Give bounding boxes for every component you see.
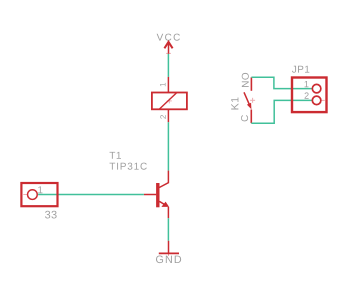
contact arm (244, 92, 250, 105)
pad origin cross (23, 194, 27, 196)
value TIP31C (110, 163, 147, 170)
label GND (156, 255, 181, 263)
coil body (152, 93, 187, 110)
pad circle (28, 190, 38, 200)
VCC arrow stem (168, 43, 170, 54)
coil pin 1 (167, 77, 169, 93)
wire base to pad 33 (38, 194, 144, 196)
wire pad 33 (21, 183, 57, 219)
base lead (144, 194, 156, 196)
label K1 (231, 97, 238, 109)
wire emitter to ground (167, 218, 169, 241)
transistor T1 TIP31C (110, 152, 170, 218)
wire C to JP1 pin 2 (251, 100, 312, 123)
power VCC (157, 34, 180, 54)
emitter arrow (161, 202, 169, 207)
coil origin cross (167, 98, 172, 103)
label JP1 (292, 66, 309, 73)
net label VCC (157, 34, 180, 41)
VCC origin cross (166, 52, 171, 54)
label T1 (110, 152, 121, 159)
value 33 (45, 211, 57, 219)
ground bar (159, 252, 179, 254)
relay contact K1 (231, 73, 255, 123)
coil pin 2 (167, 109, 169, 122)
pin label C (241, 115, 248, 121)
coil diagonal (159, 93, 177, 110)
ground (156, 241, 181, 263)
connector origin cross (322, 99, 325, 101)
emitter pin (167, 207, 169, 218)
connector frame (292, 78, 327, 113)
contact pin NO (250, 77, 252, 91)
coil pin number 2 (160, 115, 166, 119)
contact origin cross (250, 98, 255, 103)
contact arm arrow (247, 103, 252, 109)
connector JP1 (292, 66, 327, 112)
relay coil K1 (152, 77, 187, 122)
coil pin number 1 (160, 83, 166, 86)
connector pin number 1 (305, 81, 309, 87)
connector pin circle 2 (312, 96, 321, 105)
contact pin C (250, 110, 252, 124)
base bar (156, 183, 159, 207)
collector lead (159, 171, 168, 188)
ground origin cross (168, 253, 170, 255)
pad frame (21, 183, 57, 206)
wire VCC to coil pin 1 (167, 54, 169, 77)
connector pin circle 1 (312, 84, 321, 93)
connector pin number 2 (305, 92, 309, 98)
wire NO to JP1 pin 1 (251, 77, 312, 88)
pin label NO (242, 73, 249, 87)
emitter lead (159, 201, 165, 204)
ground pin (168, 241, 170, 254)
wire coil pin 2 to collector (167, 122, 169, 170)
VCC arrow head (164, 42, 172, 48)
pad pin number 1 (38, 186, 42, 193)
